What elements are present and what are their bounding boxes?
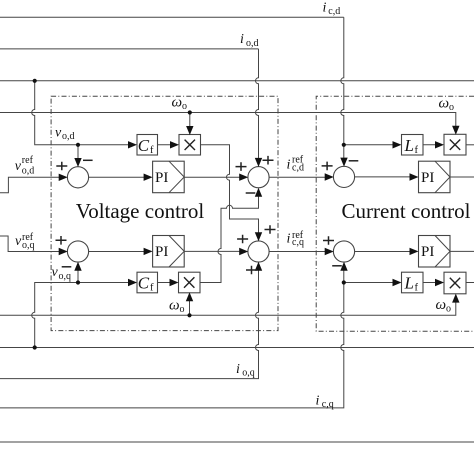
wire Lf2 to X4	[423, 282, 441, 284]
svg-text:o,d: o,d	[62, 131, 75, 142]
svg-text:f: f	[415, 145, 419, 156]
svg-text:C: C	[138, 136, 150, 155]
arrow into S5 left	[325, 173, 334, 180]
svg-text:i: i	[316, 394, 320, 409]
block Lf2	[402, 272, 424, 293]
block X4 multiplier	[444, 272, 466, 294]
multiplier cross X2	[184, 277, 194, 287]
wire branch to Lf1	[344, 144, 399, 146]
arrow up into X2 bottom	[186, 292, 193, 301]
plus sign S2	[56, 236, 67, 245]
arrow into PI2	[144, 248, 153, 255]
summing node S5 (current d)	[333, 166, 354, 187]
plus sign S4 left	[237, 235, 248, 244]
svg-text:i: i	[236, 362, 240, 377]
junction dot v_o,q tap	[33, 345, 37, 349]
plus sign S4 bottom	[246, 266, 257, 275]
arrow into Lf1	[393, 141, 402, 148]
arrow down into S1 top	[74, 158, 81, 167]
arrow into X2	[170, 279, 179, 286]
svg-text:i: i	[287, 232, 291, 247]
plus sign S6	[323, 236, 334, 245]
minus sign S6	[332, 265, 342, 267]
dash-dot frame Voltage control	[51, 96, 278, 330]
wire PI3 output	[450, 176, 474, 178]
wire i_o,q line and vertical into node S4 bottom	[0, 265, 259, 379]
minus sign S3 bottom	[246, 192, 256, 194]
plus sign S4 top	[265, 225, 276, 234]
block Cf1	[137, 135, 158, 156]
wire v_o,q branch up to node S2	[77, 265, 79, 283]
arrow into S6 left	[325, 248, 334, 255]
svg-text:f: f	[150, 283, 154, 294]
block PI1 (voltage d)	[153, 161, 185, 193]
multiplier cross X1	[185, 140, 195, 150]
arrow down into X3 top	[452, 126, 459, 135]
multiplier cross X4	[450, 278, 460, 288]
svg-text:L: L	[404, 273, 414, 292]
svg-text:ω: ω	[172, 95, 183, 111]
junction dot omega_o d	[188, 110, 192, 114]
block Lf1	[402, 135, 424, 156]
wire node S3 output i_c,d ref	[269, 176, 331, 178]
summing node S1 (voltage d)	[67, 167, 88, 188]
junction dot v_o,d branch	[76, 143, 80, 147]
plus sign S1	[56, 162, 67, 171]
wire X1 output to node S4 top	[201, 145, 259, 238]
svg-text:c,q: c,q	[322, 399, 334, 410]
svg-text:f: f	[150, 145, 154, 156]
wire v_o,q line	[0, 347, 474, 349]
arrow into PI1	[144, 174, 153, 181]
arrow into X4	[435, 279, 444, 286]
svg-text:o,q: o,q	[242, 368, 255, 379]
multiplier cross X3	[450, 140, 460, 150]
block X2 multiplier	[179, 272, 201, 293]
wire omega_o q line	[0, 297, 456, 315]
chevron PI4	[435, 236, 450, 268]
svg-text:ω: ω	[436, 297, 447, 313]
svg-text:v: v	[15, 159, 22, 174]
summing node S3 (i_c,d ref)	[248, 167, 269, 188]
block X3 multiplier	[444, 134, 466, 155]
svg-text:o: o	[449, 102, 454, 113]
wire branch to Lf2	[344, 282, 399, 284]
wire node S5 output to PI3	[354, 176, 415, 178]
dash-dot frame Current control	[316, 96, 474, 331]
arrow into PI3	[410, 173, 419, 180]
arrow up into S2 bottom	[74, 262, 81, 271]
svg-text:i: i	[323, 1, 327, 16]
wire v_o,d ref input	[0, 177, 65, 193]
summing node S2 (voltage q)	[67, 241, 88, 262]
wire X3 output	[466, 144, 474, 146]
arrow down into S3 top	[255, 158, 262, 167]
arrow down into X1 top	[186, 126, 193, 135]
wire X2 output up into node S3 bottom	[201, 191, 259, 283]
arrow into X3	[435, 141, 444, 148]
wire PI1 output to node S3	[184, 176, 245, 178]
junction dot Lf2 branch	[342, 280, 346, 284]
svg-text:o,q: o,q	[22, 240, 35, 251]
wire v_o,d line	[0, 80, 474, 82]
arrow up into S4 bottom	[255, 262, 262, 271]
svg-text:v: v	[15, 234, 22, 249]
wire v_o,q tap to Cf2	[32, 283, 134, 348]
wire v_o,d tap to Cf	[32, 81, 134, 145]
minus sign S5	[349, 160, 359, 162]
arrow into Cf1	[128, 141, 137, 148]
arrow into Cf2	[128, 279, 137, 286]
svg-text:i: i	[240, 32, 244, 47]
wire node S1 to PI block	[88, 176, 149, 178]
arrow into S3 left	[239, 174, 248, 181]
svg-text:C: C	[138, 273, 150, 292]
chevron PI2	[169, 236, 184, 268]
chevron PI1	[169, 161, 184, 193]
plus sign S5	[322, 162, 333, 171]
plus sign S3 top	[263, 156, 274, 165]
arrow into PI4	[410, 248, 419, 255]
svg-text:PI: PI	[421, 244, 434, 260]
junction dot Lf1 branch	[342, 143, 346, 147]
svg-text:o,d: o,d	[22, 166, 35, 177]
wire node S2 to PI2	[88, 251, 149, 253]
svg-text:Voltage control: Voltage control	[76, 199, 205, 223]
summing node S6 (current q)	[333, 241, 354, 262]
arrow into Lf2	[393, 279, 402, 286]
arrow down into S4 top	[255, 232, 262, 241]
block Cf2	[137, 272, 158, 293]
svg-text:o: o	[180, 304, 185, 315]
svg-text:c,d: c,d	[292, 162, 304, 173]
svg-text:o: o	[446, 303, 451, 314]
wire node S4 output i_c,q ref	[269, 251, 331, 253]
svg-text:ω: ω	[439, 95, 450, 111]
svg-text:ref: ref	[22, 155, 34, 166]
wire i_o,d line	[0, 48, 259, 50]
wire Cf2 to X2	[158, 282, 176, 284]
wire i_o,d vertical into node S3	[256, 49, 259, 164]
wire X4 output	[466, 282, 474, 284]
arrow up into X4 bottom	[452, 294, 459, 303]
minus sign S1	[83, 159, 93, 161]
arrow into S1 left	[59, 174, 68, 181]
svg-text:i: i	[287, 157, 291, 172]
wire Cf1 to X1	[158, 144, 177, 146]
svg-text:L: L	[404, 136, 414, 155]
arrow down into S5 top	[340, 158, 347, 167]
wire PI2 output to node S4	[184, 250, 245, 252]
junction dot omega_o q	[187, 313, 191, 317]
wire omega_o q branch to X2	[189, 296, 191, 315]
svg-text:PI: PI	[155, 170, 168, 186]
summing node S4 (i_c,q ref)	[248, 241, 269, 262]
wire i_c,q line and vertical into node S6 bottom	[0, 265, 344, 408]
block X1 multiplier	[179, 135, 201, 156]
wire Lf1 to X3	[423, 144, 441, 146]
wire v_o,q ref input	[0, 236, 65, 252]
svg-text:ω: ω	[169, 297, 180, 313]
wire i_c,d top line	[0, 16, 344, 18]
wire omega_o d line	[0, 113, 456, 132]
svg-text:PI: PI	[155, 244, 168, 260]
wire PI4 output	[450, 250, 474, 252]
block PI3 (current d)	[419, 161, 451, 193]
chevron PI3	[435, 161, 450, 193]
svg-text:f: f	[415, 283, 419, 294]
arrow into S4 left	[239, 248, 248, 255]
plus sign S3 left	[236, 162, 247, 171]
wire omega_o branch to multiplier X1	[189, 113, 191, 132]
junction dot v_o,q branch	[76, 280, 80, 284]
svg-text:o,q: o,q	[59, 271, 72, 282]
wire i_c,d vertical into current d summing node	[341, 17, 344, 163]
block PI2 (voltage q)	[153, 236, 185, 268]
minus sign S2	[62, 266, 72, 268]
svg-text:o,d: o,d	[246, 38, 259, 49]
arrow into S2 left	[59, 248, 68, 255]
svg-text:c,q: c,q	[292, 237, 304, 248]
junction dot v_o,d tap	[33, 79, 37, 83]
svg-text:v: v	[55, 126, 62, 141]
block PI4 (current q)	[419, 236, 451, 268]
svg-text:PI: PI	[421, 170, 434, 186]
arrow up into S6 bottom	[340, 262, 347, 271]
arrow up into S3 bottom	[255, 188, 262, 197]
svg-text:v: v	[52, 265, 59, 280]
wire node S6 output to PI4	[354, 251, 415, 253]
svg-text:o: o	[182, 101, 187, 112]
wire v_o,d branch down to node S1	[77, 145, 79, 164]
arrow into X1	[170, 141, 179, 148]
wire bottom line	[0, 441, 474, 443]
svg-text:c,d: c,d	[328, 6, 340, 17]
svg-text:Current control: Current control	[342, 199, 471, 223]
